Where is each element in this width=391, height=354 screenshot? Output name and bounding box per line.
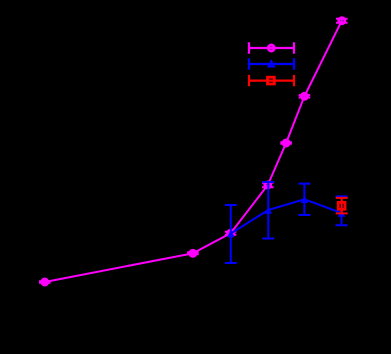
- magenta series line: [45, 21, 342, 282]
- red marker (open square): [338, 202, 345, 209]
- blue markers (filled triangles): [227, 196, 345, 238]
- legend entry 1 (magenta): [249, 42, 294, 53]
- legend entry 3 (red): [249, 75, 294, 86]
- magenta error bars (tiny, mostly hidden by markers): [39, 19, 348, 283]
- blue series line: [231, 199, 342, 233]
- legend entry 2 (blue): [249, 58, 294, 69]
- magenta markers (open circles): [42, 18, 345, 285]
- red error bar: [336, 198, 348, 214]
- blue error bars: [225, 182, 348, 263]
